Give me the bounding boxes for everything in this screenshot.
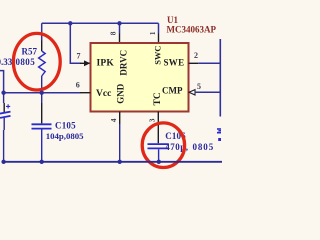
svg-text:MC34063AP: MC34063AP xyxy=(167,25,217,35)
wire bottom rail xyxy=(2,161,222,163)
junction dot (pin4 / bottom rail) xyxy=(118,160,122,164)
wire pin8 drop xyxy=(119,23,121,33)
svg-text:SWC: SWC xyxy=(153,45,163,64)
pin 2 stub (SWE) xyxy=(189,62,199,64)
wire R57 top drop xyxy=(41,23,43,40)
svg-text:0805: 0805 xyxy=(193,142,215,152)
pin 7 stub (IPK) with arrowhead xyxy=(80,60,91,66)
wire pin4 GND drop xyxy=(119,112,121,162)
capacitor (polarized, left edge, partially cut) xyxy=(0,93,11,162)
svg-text:CMP: CMP xyxy=(162,85,183,95)
junction dot (C105 / bottom rail) xyxy=(40,160,44,164)
svg-text:SWE: SWE xyxy=(164,57,185,67)
pin 5 open arrowhead (CMP input) xyxy=(189,90,195,95)
junction dot A (top rail / pin7 branch) xyxy=(68,21,72,25)
wire top rail xyxy=(42,22,159,24)
resistor R57 xyxy=(39,41,46,93)
pin 6 stub (Vcc) xyxy=(80,92,91,94)
wire CMP net xyxy=(195,91,222,93)
annotation circle around C106 xyxy=(142,123,184,168)
net label fragment (right edge, cut) xyxy=(217,128,221,141)
svg-text:2: 2 xyxy=(194,51,198,60)
wire pin7 branch xyxy=(70,23,81,63)
svg-text:5: 5 xyxy=(197,82,201,91)
svg-text:R57: R57 xyxy=(22,46,38,56)
svg-text:IPK: IPK xyxy=(97,58,115,68)
svg-text:C105: C105 xyxy=(55,120,76,130)
capacitor C105 xyxy=(32,93,52,162)
annotation circle around R57 xyxy=(13,33,60,90)
svg-text:104p,0805: 104p,0805 xyxy=(46,131,84,141)
junction dot B (top rail / pin8 branch) xyxy=(117,21,121,25)
wire SWE net xyxy=(198,62,221,64)
pin 8 stub (DRVC) xyxy=(119,34,121,44)
svg-text:3: 3 xyxy=(148,118,157,122)
svg-text:0805: 0805 xyxy=(16,57,36,67)
junction dot (left branch / Vcc rail) xyxy=(1,91,5,95)
wire pin1 corner drop xyxy=(158,23,160,33)
junction dot (C106 / bottom rail) xyxy=(157,160,161,164)
svg-text:DRVC: DRVC xyxy=(118,50,128,76)
wire right vertical net xyxy=(219,39,221,117)
pin 1 stub (SWC) xyxy=(158,34,160,44)
svg-text:6: 6 xyxy=(76,80,80,89)
wire left branch upper xyxy=(0,71,4,93)
svg-text:1: 1 xyxy=(148,31,157,35)
svg-text:Vcc: Vcc xyxy=(96,89,111,99)
capacitor C106 (pin 3 / TC) xyxy=(148,112,169,162)
op-amp/IC U1 body (MC34063AP) xyxy=(91,43,189,112)
svg-text:4: 4 xyxy=(109,118,118,122)
svg-text:7: 7 xyxy=(77,52,81,61)
wire Vcc rail (pin 6) xyxy=(2,92,81,94)
junction dot (R57 branch / Vcc rail) xyxy=(40,91,44,95)
svg-text:GND: GND xyxy=(115,83,125,104)
junction dot (left branch / bottom rail) xyxy=(1,160,5,164)
svg-text:8: 8 xyxy=(109,31,118,35)
svg-text:U1: U1 xyxy=(167,15,178,25)
